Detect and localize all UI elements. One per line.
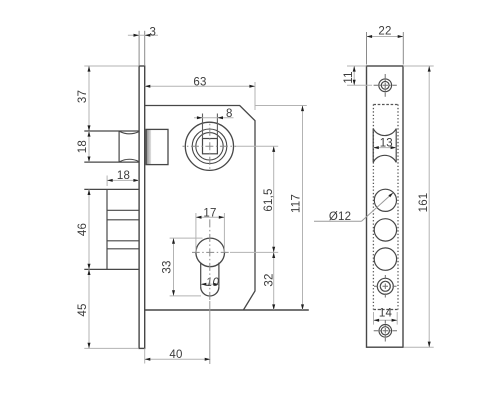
svg-text:8: 8: [226, 108, 233, 120]
top screw hole outer circle: [379, 79, 392, 92]
dim 14: extension ticks below dashed body: [373, 312, 375, 325]
svg-text:40: 40: [169, 349, 182, 361]
cylinder hole circle d17: [196, 238, 225, 267]
faceplate front view 22x161: [367, 66, 404, 347]
middle screw hole crosshair: [374, 285, 397, 287]
circle hole 1: [374, 189, 396, 211]
svg-text:3: 3: [149, 26, 156, 38]
dim 63: right extension line above body: [254, 82, 256, 110]
svg-text:32: 32: [263, 273, 275, 286]
dim 32: dimension line and arrows: [273, 252, 275, 310]
deadbolt prong 2: [107, 219, 139, 221]
cylinder hole stem sides: [200, 263, 202, 287]
svg-text:61,5: 61,5: [263, 188, 275, 211]
dim 8: dimension line with outside arrows: [194, 117, 234, 119]
svg-text:17: 17: [203, 207, 216, 219]
dim 46: dimension line and arrows: [88, 189, 90, 269]
cylinder horizontal centerline extension to dims: [230, 251, 278, 253]
dim 18 bolt throw: left tick: [106, 176, 108, 187]
cylinder hole stem bottom arc: [201, 287, 219, 296]
spindle hub inner circle: [196, 133, 223, 160]
svg-text:46: 46: [77, 223, 89, 236]
dim 45: bottom extension line at faceplate bottom: [84, 347, 139, 349]
bottom screw hole outer circle: [379, 325, 392, 338]
bottom screw hole inner circle: [381, 327, 389, 335]
svg-text:18: 18: [77, 140, 89, 153]
dim 14: dimension line and arrows: [374, 319, 398, 321]
faceplate (side view, 3mm thick): [139, 66, 145, 348]
dim 18 bolt throw: dimension line and arrows: [107, 179, 139, 181]
latch bolt cutout (front view): [372, 129, 374, 163]
spindle hub middle circle: [192, 129, 227, 164]
svg-text:63: 63: [193, 77, 206, 89]
dim 63: dimension line and arrows: [145, 85, 255, 87]
hub vertical centerline: [209, 123, 211, 171]
svg-text:13: 13: [380, 137, 393, 149]
dim 33: extension lines: [170, 237, 203, 239]
svg-text:14: 14: [379, 307, 393, 319]
spindle square hole 8mm: [203, 139, 218, 154]
svg-text:22: 22: [378, 25, 391, 37]
deadbolt prong 1: [84, 188, 139, 190]
deadbolt spine (vertical bar): [106, 189, 108, 269]
latch head block behind faceplate: [146, 130, 151, 165]
svg-text:33: 33: [162, 260, 174, 273]
leader Ø12: underline: [314, 220, 362, 222]
dim 40: dimension line and arrows: [145, 358, 211, 360]
svg-text:11: 11: [343, 71, 355, 83]
top screw hole inner circle: [381, 81, 389, 89]
circle hole 2: [374, 219, 396, 241]
hub centerline extension to dim 61,5: [236, 145, 278, 147]
dim 17: dimension line and arrows: [196, 216, 225, 218]
dim 11: lower extension line to screw center: [347, 84, 372, 86]
svg-text:Ø12: Ø12: [329, 211, 351, 223]
dim 37: dimension line and arrows: [88, 66, 90, 131]
dim 40: left extension below faceplate: [144, 348, 146, 363]
cylinder vertical centerline: [209, 217, 211, 301]
svg-text:45: 45: [77, 303, 89, 316]
middle screw hole inner circle: [380, 281, 390, 291]
lock body bottom edge extended right: [145, 309, 309, 311]
lock body top edge extension to dim 117: [255, 105, 307, 107]
hidden mortise body dashed rectangle: [372, 105, 374, 310]
dim 3: extension lines above faceplate: [138, 31, 140, 65]
cylinder centerline extension below body: [209, 301, 211, 364]
dim 17: extension lines: [195, 213, 197, 252]
cylinder horizontal centerline through circle: [192, 251, 230, 253]
dim 37: top extension line at faceplate top: [84, 65, 139, 67]
latch bolt bevel arcs: [120, 131, 139, 133]
bottom screw hole crosshair: [374, 330, 397, 332]
dim 161: bottom extension line: [404, 346, 434, 348]
dim 61,5: dimension line and arrows: [273, 146, 275, 252]
spindle hub outer circle: [185, 122, 233, 170]
leader Ø12: diagonal line into circle 1: [362, 194, 393, 221]
leader Ø12: arrowhead at circle edge: [388, 193, 393, 198]
circle hole 3: [374, 248, 396, 270]
svg-text:10: 10: [206, 277, 220, 289]
dim 22: extension lines above plate: [366, 32, 368, 65]
middle screw hole outer circle: [377, 278, 393, 294]
dim 22: dimension line and arrows: [367, 36, 404, 38]
lock body outline with chamfered right corners: [145, 106, 255, 311]
latch bolt (side view): [84, 130, 139, 132]
dim 3: dimension line with outside arrows: [128, 34, 158, 36]
svg-text:37: 37: [77, 90, 89, 103]
dim 33: dimension line and arrows: [173, 238, 175, 296]
deadbolt prong 3: [107, 248, 139, 250]
dim 13: dimension line and arrows: [373, 147, 396, 149]
dim 45: dimension line and arrows: [88, 269, 90, 348]
dim 18 latch: dimension line and arrows: [88, 131, 90, 162]
svg-text:161: 161: [418, 193, 430, 213]
svg-text:18: 18: [117, 170, 130, 182]
dim 161: dimension line and arrows: [428, 66, 430, 347]
dim 10: arrows at stem: [201, 283, 209, 285]
dim 117: dimension line and arrows: [302, 106, 304, 311]
dim 8: extension lines through hub: [202, 114, 204, 139]
hub horizontal centerline: [183, 145, 237, 147]
dim 11: dimension line and arrows: [353, 66, 355, 85]
top screw hole crosshair: [374, 84, 397, 86]
plate top edge extension lines for dims 11 and 161: [347, 65, 366, 67]
svg-text:117: 117: [291, 194, 303, 213]
